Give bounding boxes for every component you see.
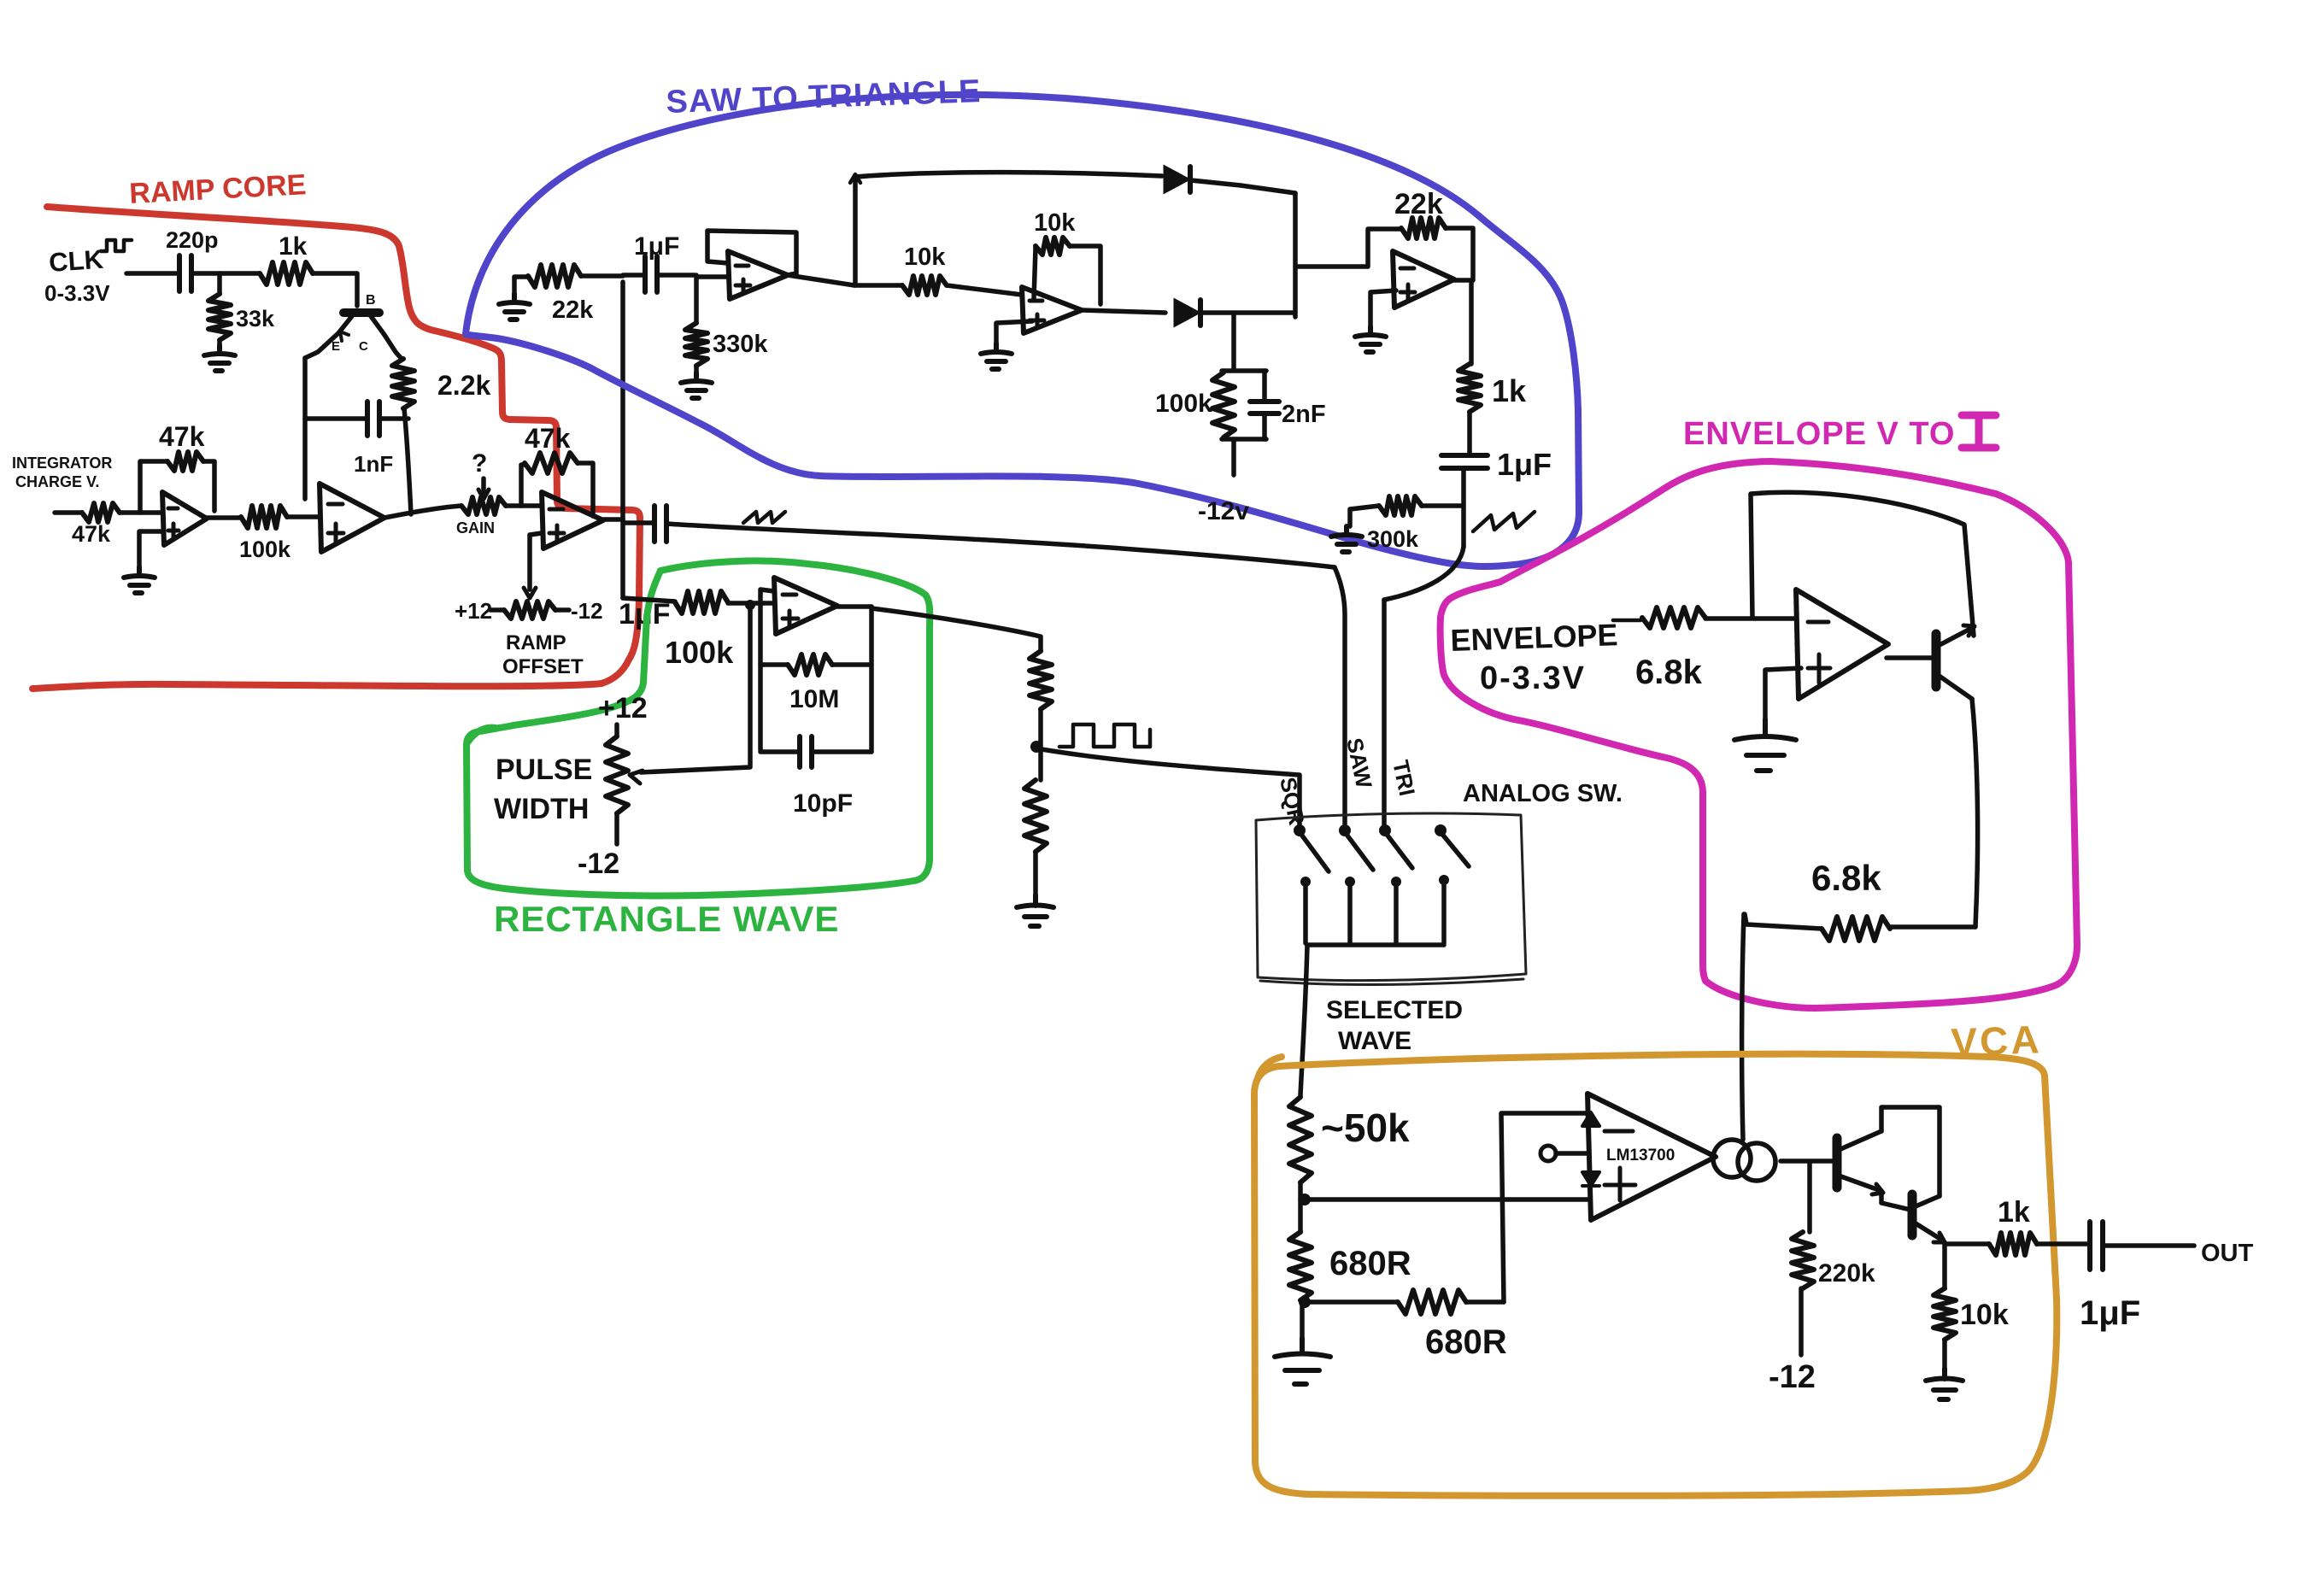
wire C1 to node <box>191 271 260 276</box>
svg-text:1k: 1k <box>1998 1196 2030 1229</box>
wire U8 out <box>837 604 871 609</box>
svg-text:GAIN: GAIN <box>456 519 495 537</box>
node divider mid <box>1298 1182 1303 1200</box>
rectangle wave region outline (green) <box>467 560 930 895</box>
op-amp U6 <box>1393 251 1454 308</box>
wire saw to switch <box>1335 567 1345 825</box>
wire U3 plus to ramp offset <box>530 533 542 589</box>
svg-text:SELECTED: SELECTED <box>1326 996 1463 1024</box>
wire divider mid <box>1038 709 1043 780</box>
wire to U1 <box>120 510 162 515</box>
svg-text:300k: 300k <box>1367 526 1419 552</box>
feedback 47k U3 <box>521 465 525 506</box>
resistor ~50k <box>1289 1097 1312 1182</box>
ground (330k) <box>694 366 699 372</box>
wire fb up to OTA minus <box>1501 1113 1587 1302</box>
svg-text:2nF: 2nF <box>1282 401 1326 428</box>
capacitor 1uF (s2t out) <box>1441 455 1488 468</box>
wire right leg down <box>1293 193 1298 317</box>
wire ramp node to 100k comp <box>623 598 675 601</box>
wire comp input down to wiper <box>641 605 750 772</box>
resistor 680R fb <box>1398 1290 1466 1314</box>
ground (U7 +) <box>1765 668 1801 719</box>
svg-text:CHARGE V.: CHARGE V. <box>15 473 99 490</box>
wire node down to clip network <box>1231 314 1236 369</box>
wire U8 out long <box>871 608 1041 651</box>
svg-text:680R: 680R <box>1329 1245 1411 1282</box>
clk pulse glyph <box>101 240 132 251</box>
svg-text:100k: 100k <box>1155 390 1212 418</box>
capacitor 1uF (s2t in) <box>623 273 643 278</box>
feedback box U8 left <box>760 589 774 750</box>
svg-text:+12: +12 <box>598 692 648 724</box>
resistor 220k <box>1792 1232 1814 1288</box>
ota input diodes <box>1582 1112 1599 1126</box>
switch 2 (SAW) <box>1339 824 1351 836</box>
feedback box U7 <box>1751 492 1974 636</box>
diode D2 <box>1175 300 1199 326</box>
resistor 10k out <box>1934 1288 1956 1340</box>
feedback 22k U6 <box>1368 229 1401 267</box>
svg-text:ANALOG SW.: ANALOG SW. <box>1463 780 1623 807</box>
integrator feedback box right <box>404 408 411 514</box>
switch 3 (TRI) <box>1379 824 1391 836</box>
svg-text:WAVE: WAVE <box>1338 1027 1411 1055</box>
capacitor C1 220p <box>179 255 191 291</box>
svg-text:WIDTH: WIDTH <box>494 793 589 825</box>
svg-text:10M: 10M <box>789 685 839 713</box>
wire CLK to C1 <box>126 271 176 276</box>
resistor 1k <box>260 262 313 284</box>
svg-text:680R: 680R <box>1425 1323 1507 1361</box>
wire to U8 <box>728 601 774 606</box>
op-amp U4 <box>728 251 788 299</box>
node comp input <box>745 600 755 610</box>
svg-text:-12: -12 <box>1769 1359 1816 1395</box>
svg-text:10pF: 10pF <box>793 789 853 818</box>
op-amp U3 <box>542 492 603 548</box>
wire U7 out to Q2 base <box>1887 655 1934 660</box>
ground (10k) <box>1942 1340 1947 1369</box>
wire top loop across <box>855 173 1162 177</box>
resistor sqr divider bottom <box>1024 780 1047 852</box>
resistor 47k input <box>82 503 120 522</box>
ramp core region outline (red) <box>32 207 640 689</box>
wire top loop up <box>853 178 858 285</box>
node sqr <box>1030 741 1042 753</box>
resistor 1k (s2t) <box>1458 364 1481 412</box>
ground (U5 +) <box>996 321 1032 343</box>
wire U2 out <box>384 506 461 518</box>
resistor 2.2k <box>392 359 414 408</box>
wire Q2 emitter down <box>1972 699 1978 927</box>
wire Q1 collector to 2.2k <box>384 335 402 359</box>
wire U4 out <box>788 275 854 285</box>
svg-text:47k: 47k <box>72 521 111 547</box>
svg-text:10k: 10k <box>1960 1299 2009 1331</box>
resistor 6.8k env <box>1613 619 1640 623</box>
wire to -12v <box>1231 439 1236 475</box>
pot RAMP OFFSET <box>490 607 504 613</box>
svg-text:0-3.3V: 0-3.3V <box>44 280 110 306</box>
wire input <box>55 510 82 515</box>
resistor 330k <box>694 275 699 323</box>
ground (33k) <box>217 340 222 345</box>
saw glyph <box>743 512 785 523</box>
svg-text:1μF: 1μF <box>2080 1294 2140 1332</box>
wire U6 out <box>1454 278 1471 283</box>
svg-text:0-3.3V: 0-3.3V <box>1480 660 1586 696</box>
wire saw long <box>666 524 1335 567</box>
tri glyph <box>1473 512 1535 531</box>
switch 4 <box>1435 824 1447 836</box>
svg-text:LM13700: LM13700 <box>1606 1147 1675 1164</box>
wire U6 out down <box>1469 280 1474 364</box>
ground (divider vca) <box>1300 1302 1305 1338</box>
resistor 300k <box>1422 503 1464 508</box>
wire fb bottom <box>1305 1299 1398 1305</box>
svg-text:100k: 100k <box>239 537 291 562</box>
wire D2 to node <box>1201 310 1295 315</box>
resistor 33k <box>217 273 222 294</box>
svg-text:10k: 10k <box>904 243 946 271</box>
svg-text:47k: 47k <box>525 423 571 454</box>
svg-text:22k: 22k <box>552 296 594 324</box>
svg-text:OFFSET: OFFSET <box>502 655 584 678</box>
svg-text:1k: 1k <box>1492 373 1527 408</box>
switch 1 (SQR) <box>1294 824 1306 836</box>
svg-text:RECTANGLE WAVE: RECTANGLE WAVE <box>494 899 839 939</box>
clip network bottom bus <box>1222 437 1266 442</box>
transistor Q4 <box>1908 1194 1917 1235</box>
wire selected wave <box>1300 945 1307 1095</box>
op-amp U2 integrator <box>320 484 384 552</box>
op-amp U1 <box>162 492 207 545</box>
svg-text:INTEGRATOR: INTEGRATOR <box>12 455 112 472</box>
capacitor 1uF out <box>2037 1241 2086 1246</box>
wire Q3 emitter to Q4 base <box>1881 1191 1910 1210</box>
node divider bottom <box>1299 1296 1311 1308</box>
resistor 6.8k (2) <box>1890 924 1975 930</box>
svg-text:6.8k: 6.8k <box>1635 654 1703 691</box>
diode D1 <box>1165 167 1188 192</box>
svg-text:1nF: 1nF <box>354 451 393 477</box>
envelope v-to-i region outline (magenta) <box>1441 461 2077 1008</box>
saw-to-triangle region outline (blue) <box>466 95 1579 566</box>
svg-text:1k: 1k <box>279 232 308 261</box>
resistor 100k comp <box>675 591 728 613</box>
clip network 100k/2nF top bus <box>1222 368 1266 373</box>
wire 1k to Q1 base <box>313 273 357 306</box>
svg-text:10k: 10k <box>1034 209 1076 237</box>
svg-text:330k: 330k <box>713 331 768 358</box>
wire 1k to cap <box>1467 412 1472 453</box>
wire D1 to right leg <box>1191 180 1295 193</box>
svg-text:-12v: -12v <box>1198 497 1249 525</box>
mirror box <box>1881 1107 1940 1196</box>
resistor sqr divider top <box>1030 651 1052 709</box>
svg-text:RAMP: RAMP <box>506 631 566 654</box>
svg-text:~50k: ~50k <box>1321 1106 1410 1150</box>
wire to U4 <box>696 274 728 279</box>
wire cap down <box>1461 468 1466 547</box>
wire sqr to switch <box>1036 748 1300 825</box>
svg-text:47k: 47k <box>159 421 205 452</box>
feedback 10k U5 <box>1034 248 1036 299</box>
ground (22k in) <box>499 294 530 320</box>
svg-text:-12: -12 <box>571 598 603 624</box>
svg-text:CLK: CLK <box>48 244 105 278</box>
feedback box U8 right <box>869 607 874 752</box>
resistor 10M <box>760 662 788 667</box>
feedback 47k U1 <box>140 461 167 513</box>
ota bias input <box>1541 1146 1556 1161</box>
pot GAIN <box>461 497 506 514</box>
svg-text:220k: 220k <box>1818 1259 1875 1288</box>
capacitor 1uF ramp out <box>624 520 653 525</box>
svg-text:6.8k: 6.8k <box>1811 858 1881 898</box>
wire divider to OTA plus <box>1305 1197 1587 1202</box>
ramp node vertical wire <box>620 282 625 598</box>
svg-text:PULSE: PULSE <box>496 754 592 786</box>
switch output bus <box>1307 942 1444 947</box>
wire GAIN to U3 <box>506 503 542 508</box>
ground (U6 +) <box>1370 290 1396 326</box>
wire env current down to VCA <box>1742 914 1744 1140</box>
svg-text:+12: +12 <box>455 598 492 624</box>
wire Q4 emitter junction <box>1945 1242 1989 1288</box>
resistor 680R <box>1298 1200 1303 1232</box>
wire 220k to -12 <box>1799 1288 1804 1355</box>
op-amp U7 <box>1796 589 1888 699</box>
resistor 1k out <box>1989 1233 2037 1255</box>
integrator feedback box left <box>302 358 308 499</box>
wire node to U6 branch <box>1295 264 1367 269</box>
ground (300k) <box>1331 526 1362 552</box>
svg-text:C: C <box>359 339 368 354</box>
wire U5 out <box>1082 310 1165 313</box>
resistor 100k clip <box>1212 372 1235 437</box>
svg-text:2.2k: 2.2k <box>437 370 490 401</box>
ota output circles <box>1713 1140 1751 1177</box>
wire TRI bend <box>1384 547 1464 600</box>
resistor 22k in <box>528 265 581 287</box>
transistor Q2 env <box>1932 634 1941 687</box>
transistor Q1 <box>343 308 379 317</box>
vca region outline (orange) <box>1254 1054 2057 1496</box>
op-amp U8 comparator <box>774 578 837 634</box>
wiper arrowhead <box>630 771 643 783</box>
svg-text:ENVELOPE: ENVELOPE <box>1450 617 1618 658</box>
svg-text:220p: 220p <box>166 227 219 253</box>
capacitor 2nF <box>1262 371 1267 400</box>
transistor Q3 <box>1833 1138 1842 1188</box>
rectangle wave hook <box>468 728 496 742</box>
wire 22k to node <box>581 273 623 279</box>
svg-text:B: B <box>366 293 376 308</box>
resistor 10k in <box>854 283 902 288</box>
op-amp U5 <box>1022 287 1082 333</box>
svg-text:1μF: 1μF <box>634 232 679 261</box>
svg-text:VCA: VCA <box>1951 1017 2043 1065</box>
svg-text:OUT: OUT <box>2201 1240 2254 1267</box>
ground (divider) <box>1033 852 1038 895</box>
wire tri to switch <box>1382 600 1387 825</box>
analog switch box <box>1256 813 1526 984</box>
svg-text:ENVELOPE V TO: ENVELOPE V TO <box>1683 416 1955 452</box>
wire U3 output node <box>603 517 623 522</box>
wire ota out <box>1781 1158 1834 1164</box>
svg-text:22k: 22k <box>1394 188 1443 220</box>
capacitor 1nF <box>305 416 366 421</box>
resistor 100k <box>206 515 241 520</box>
ground (U1 +) <box>139 531 162 567</box>
svg-text:-12: -12 <box>578 848 619 880</box>
wire Q1 emitter to integrator node <box>305 333 338 358</box>
svg-text:1μF: 1μF <box>1497 447 1552 482</box>
capacitor 10pF <box>760 749 798 754</box>
wire to U2 <box>287 514 320 519</box>
feedback wire U4 <box>707 231 796 275</box>
svg-text:?: ? <box>472 449 487 478</box>
ota LM13700 <box>1587 1094 1716 1220</box>
svg-text:100k: 100k <box>665 635 734 670</box>
sqr glyph <box>1059 724 1150 747</box>
svg-text:33k: 33k <box>236 306 275 331</box>
wire 220k branch <box>1807 1162 1812 1232</box>
